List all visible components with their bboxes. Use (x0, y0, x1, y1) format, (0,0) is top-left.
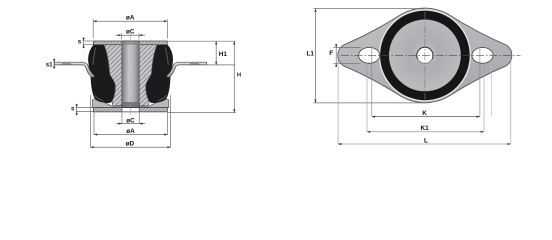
svg-text:K1: K1 (421, 125, 430, 132)
dim øC bottom (121, 112, 123, 124)
svg-text:s: s (71, 106, 75, 113)
centreline (130, 33, 132, 116)
svg-text:s1: s1 (46, 62, 53, 69)
top plate (section) (93, 41, 167, 45)
rubber body left half (88, 45, 115, 103)
top view: flange plate (338, 8, 512, 103)
dim øA top (92, 19, 94, 38)
dim H1 (168, 40, 236, 42)
dim øD bottom (89, 95, 91, 147)
svg-text:H1: H1 (219, 51, 228, 58)
dim K1 (366, 63, 368, 132)
dim s bottom plate (76, 107, 93, 109)
centre bushing (122, 41, 139, 108)
left wing flange s1 (55, 62, 95, 77)
dim s top plate (83, 40, 94, 42)
bottom washer plate (92, 99, 168, 107)
right bolt slot (472, 48, 493, 64)
dim K (371, 48, 373, 117)
horizontal centreline (341, 54, 521, 56)
vertical centreline (424, 12, 426, 100)
bottom plate (section) (93, 108, 167, 112)
centre hole (417, 47, 433, 63)
dim øA bottom (93, 112, 95, 135)
dim øC top (121, 33, 123, 39)
svg-text:øA: øA (126, 14, 135, 21)
dim L1 (314, 8, 425, 10)
inner metal cone (section hatch) (104, 45, 122, 106)
svg-text:øD: øD (126, 141, 135, 148)
housing rim circle (379, 9, 471, 101)
left bolt slot (359, 48, 380, 64)
rubber top face disc (389, 20, 461, 92)
dim s1 wing (53, 61, 57, 63)
right wing flange (167, 62, 207, 77)
svg-text:L: L (424, 137, 428, 144)
rubber highlight (93, 48, 96, 66)
rubber body right half (146, 45, 173, 103)
svg-text:s: s (78, 39, 82, 46)
rubber ring (black) (380, 11, 470, 101)
dim H (168, 112, 236, 114)
svg-text:F: F (329, 50, 333, 57)
svg-text:L1: L1 (307, 50, 315, 57)
svg-text:K: K (422, 110, 427, 117)
svg-text:H: H (237, 73, 241, 79)
dim F (333, 47, 360, 49)
svg-text:øA: øA (126, 128, 135, 135)
dim L (337, 60, 339, 144)
svg-text:øC: øC (126, 29, 135, 36)
svg-text:øC: øC (126, 117, 135, 124)
